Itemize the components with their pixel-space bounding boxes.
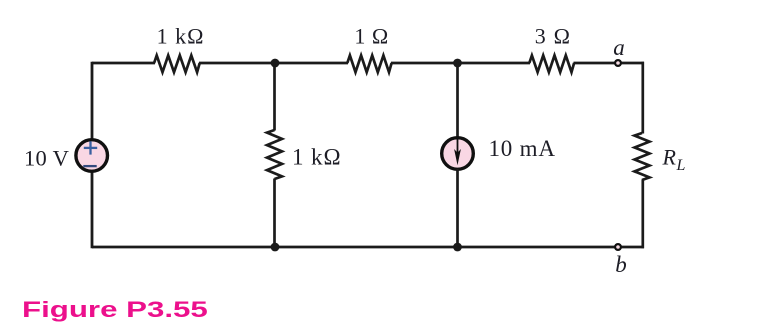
svg-text:R: R (662, 144, 677, 169)
node dot bottom-middle-left (271, 243, 280, 252)
wire top rail segment 1 (92, 62, 155, 65)
wire right vertical upper (641, 62, 644, 134)
wire current-source vertical upper (456, 63, 459, 138)
svg-text:3 Ω: 3 Ω (535, 23, 571, 48)
svg-text:L: L (676, 157, 686, 174)
wire left vertical lower (91, 172, 94, 248)
resistor RL (right vertical) (635, 133, 650, 180)
terminal b (615, 244, 621, 250)
svg-text:10 mA: 10 mA (489, 136, 556, 161)
terminal a (615, 60, 621, 66)
resistor R3 1 Ohm (top middle) (347, 55, 391, 72)
figure caption (22, 297, 208, 323)
svg-text:10 V: 10 V (24, 145, 69, 170)
node dot top-middle-left (271, 59, 280, 68)
current source I1 10 mA (442, 138, 474, 170)
resistor R2 1 kOhm (middle vertical) (267, 130, 282, 179)
wire top rail segment 2 (199, 62, 348, 65)
wire top rail segment 4 (574, 62, 645, 65)
node dot top-middle-right (453, 59, 462, 68)
wire left vertical upper (91, 62, 94, 139)
wire middle vertical lower (273, 179, 276, 248)
node dot bottom-middle-right (453, 243, 462, 252)
svg-text:1 Ω: 1 Ω (354, 23, 388, 48)
svg-text:b: b (615, 252, 627, 277)
wire right vertical lower (641, 180, 644, 249)
voltage source U1 10 V (76, 140, 108, 172)
resistor R1 1 kOhm (top left) (154, 55, 200, 72)
wire top rail segment 3 (391, 62, 530, 65)
wire middle vertical upper (273, 63, 276, 131)
svg-text:1 kΩ: 1 kΩ (157, 23, 205, 48)
wire current-source vertical lower (456, 169, 459, 247)
svg-text:a: a (613, 35, 625, 60)
svg-text:1 kΩ: 1 kΩ (292, 145, 341, 170)
wire bottom rail (92, 246, 644, 249)
resistor R4 3 Ohm (top right) (529, 55, 574, 72)
